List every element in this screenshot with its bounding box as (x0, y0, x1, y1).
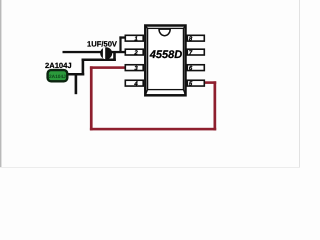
capacitor C2 film cap 2A104J (48, 70, 68, 81)
wire red: left vertical down (90, 66, 93, 130)
svg-text:2A104J: 2A104J (45, 61, 72, 70)
svg-text:2: 2 (133, 49, 138, 56)
wire: lower black line B under capacitor (82, 59, 116, 62)
U1 pin 4 (125, 80, 143, 87)
svg-text:2A104J: 2A104J (49, 74, 66, 80)
U1 pin 3 (125, 65, 143, 72)
svg-text:4: 4 (133, 80, 138, 87)
wire red: stub into pin 5 (202, 81, 216, 84)
U1 notch (159, 29, 170, 36)
U1 pin 2 (125, 49, 143, 56)
wire red: right vertical up to pin 5 row (214, 81, 217, 130)
wire: branch stub into pin 1 (horizontal) (119, 36, 127, 38)
svg-text:1UF/50V: 1UF/50V (87, 40, 118, 49)
U1 pin 8 (187, 35, 204, 42)
wire: branch up to pin 1 (vertical) (119, 36, 121, 52)
capacitor C1 electrolytic body (1UF/50V) (100, 46, 112, 61)
wire: black input wire into pin 2 (63, 51, 128, 53)
svg-text:4558D: 4558D (149, 49, 182, 61)
wire red: stub into pin 3 (90, 66, 128, 69)
wire: horizontal lead of C2 (66, 73, 84, 76)
wire: vertical from line B down to C2 lead (82, 59, 85, 76)
wire red: bottom horizontal (90, 128, 216, 131)
wire: vertical joining line B to input wire (113, 52, 116, 61)
video frame edge (decorative, unlabeled) (0, 0, 1, 168)
U1 pin 7 (187, 49, 204, 56)
U1 pin 6 (187, 65, 204, 72)
U1 pin 1 (125, 35, 143, 42)
U1 pin 5 (187, 80, 204, 87)
wire: open hanging lead below C2 (75, 73, 78, 94)
op-amp U1 4558D body (145, 26, 185, 96)
